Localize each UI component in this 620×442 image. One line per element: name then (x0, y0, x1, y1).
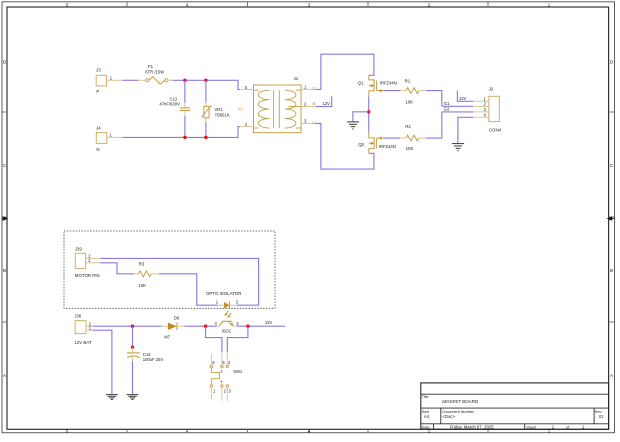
junction dot top C12 (183, 79, 186, 82)
svg-text:2: 2 (428, 2, 431, 7)
svg-text:12: 12 (312, 87, 316, 91)
power symbol 12V on pin 2 (313, 96, 332, 106)
junction dot right of opto (246, 325, 249, 328)
svg-text:J36: J36 (74, 314, 81, 319)
wire D6 to opto transistor (184, 325, 217, 327)
svg-text:5: 5 (66, 2, 69, 7)
svg-text:MOSFET BOARD: MOSFET BOARD (442, 399, 479, 404)
svg-text:ISO1: ISO1 (222, 329, 232, 334)
dashed enclosure box (64, 231, 275, 308)
svg-text:IRFZ44N: IRFZ44N (380, 81, 397, 86)
svg-text:01: 01 (599, 414, 604, 419)
switch SW1 (210, 352, 243, 401)
resistor R1 (400, 78, 426, 104)
svg-text:R2: R2 (405, 124, 411, 129)
connector J39 (75, 246, 100, 278)
frame column labels bottom (66, 428, 551, 433)
transformer J1 (240, 76, 316, 133)
svg-text:47nF/630V: 47nF/630V (159, 101, 180, 106)
frame column ticks bottom (127, 429, 488, 432)
svg-text:J2: J2 (489, 86, 494, 91)
svg-text:J4: J4 (96, 126, 101, 131)
svg-text:12V: 12V (323, 101, 331, 106)
frame row labels right (610, 60, 614, 379)
ground at J2 (452, 144, 464, 151)
svg-text:B: B (3, 268, 6, 273)
net G1 wire (442, 101, 474, 106)
junction dot above C13 (131, 346, 134, 349)
svg-text:10K: 10K (406, 146, 414, 151)
title block text (422, 395, 605, 430)
wire opto pin4 branch to SW1 pin5 (206, 326, 222, 352)
title block outline (421, 383, 609, 429)
svg-text:Friday, March 07, 2025: Friday, March 07, 2025 (450, 424, 494, 429)
frame center arrow right (607, 216, 615, 220)
svg-text:P: P (96, 89, 99, 94)
wire Q2 gate to R2 (383, 137, 400, 139)
junction dot C13 tap (131, 325, 134, 328)
svg-text:R1: R1 (405, 78, 411, 83)
wire opto pin3 branch to SW1 pin4 (227, 326, 248, 352)
wire pin3 riser to bottom rail (316, 124, 374, 170)
diode D6 (162, 315, 185, 339)
wire motor pin2 to opto pin2 (100, 258, 258, 305)
svg-text:4: 4 (186, 428, 189, 433)
connector J4 (96, 126, 122, 153)
svg-text:Sheet: Sheet (526, 425, 537, 429)
svg-text:12V: 12V (459, 96, 467, 101)
connector J36 (74, 314, 92, 345)
svg-text:VR1: VR1 (215, 107, 224, 112)
junction dot bottom C12 (183, 136, 186, 139)
svg-text:Q2: Q2 (358, 142, 364, 147)
frame row labels left (3, 60, 7, 379)
wire R3 to opto pin1 (159, 274, 218, 305)
svg-text:A4: A4 (424, 414, 430, 419)
svg-text:4: 4 (186, 2, 189, 7)
svg-text:MOTOR PIN: MOTOR PIN (75, 273, 100, 278)
svg-text:R3: R3 (139, 261, 145, 266)
svg-text:5: 5 (66, 428, 69, 433)
wire Q1 gate to R1 (383, 90, 400, 92)
svg-text:M7: M7 (164, 335, 170, 340)
svg-text:10K: 10K (138, 283, 146, 288)
wire to mid ground (353, 112, 369, 122)
frame row ticks left (2, 112, 7, 322)
svg-text:3: 3 (308, 2, 311, 7)
svg-text:12V BAT: 12V BAT (74, 340, 92, 345)
svg-text:100uF 25V: 100uF 25V (143, 357, 164, 362)
transistor Q2 (358, 132, 396, 154)
junction dot left of opto (204, 325, 207, 328)
svg-text:J1: J1 (294, 76, 299, 81)
svg-text:J3: J3 (96, 68, 101, 73)
wire C13 branch (132, 326, 134, 347)
net label 12V (265, 320, 273, 325)
transistor Q1 (358, 75, 397, 96)
wire C13 to ground (132, 361, 134, 394)
power 12V at J2 pin 1 (457, 91, 473, 102)
frame center arrow bottom (308, 430, 311, 432)
svg-text:G2: G2 (444, 107, 450, 112)
wire F1 to J1 top rail (173, 80, 241, 89)
junction dot bottom VR1 (204, 136, 207, 139)
svg-text:SW1: SW1 (233, 369, 243, 374)
opto isolator LED (206, 291, 241, 309)
capacitor C12 (159, 80, 190, 137)
connector J3 (96, 68, 123, 94)
wire R1 to G1 (426, 91, 442, 107)
svg-text:N: N (96, 147, 99, 152)
frame center arrow left (3, 216, 9, 220)
wire motor pin1 to R3 (100, 263, 134, 274)
ground below J36 (106, 395, 118, 400)
ground below C13 (127, 395, 139, 400)
svg-text:J39: J39 (75, 246, 82, 251)
wire J36 pin2 to D6 (93, 325, 162, 327)
svg-text:B: B (610, 268, 613, 273)
svg-text:G1: G1 (444, 101, 450, 106)
connector J2 (473, 86, 501, 132)
svg-text:OPTO ISOLATOR: OPTO ISOLATOR (206, 291, 241, 296)
svg-text:AC: AC (238, 107, 244, 112)
opto transistor ISO1 (215, 321, 240, 334)
wire pin1 riser to top rail (316, 54, 374, 89)
varistor VR1 (202, 80, 230, 137)
junction dot top VR1 (204, 79, 207, 82)
svg-text:CON4: CON4 (489, 128, 502, 133)
frame column labels top (66, 2, 551, 7)
svg-text:12V: 12V (265, 320, 273, 325)
wire Q1 source to Q2 drain (368, 96, 370, 131)
wire R2 to G2 (426, 112, 442, 138)
svg-text:Q1: Q1 (358, 81, 364, 86)
ground mid (347, 122, 359, 129)
svg-text:1: 1 (548, 2, 551, 7)
svg-text:<Doc>: <Doc> (442, 414, 455, 419)
fuse F1 (138, 64, 173, 84)
svg-text:Date:: Date: (422, 425, 431, 429)
opto emission arrows (224, 311, 231, 318)
wire opto to 12V net (237, 325, 285, 327)
resistor R3 (134, 261, 159, 288)
net label 12 on pin 3 (312, 121, 316, 125)
wire J3 to F1 (123, 79, 139, 81)
junction dot source node (367, 110, 370, 113)
svg-text:Title: Title (422, 395, 429, 399)
net G2 wire (442, 107, 474, 112)
svg-text:7D661K: 7D661K (215, 113, 230, 118)
svg-text:10K: 10K (405, 100, 413, 105)
resistor R2 (400, 124, 426, 151)
svg-text:D6: D6 (174, 315, 180, 320)
svg-text:12: 12 (312, 121, 316, 125)
frame column ticks top (127, 2, 488, 7)
frame row ticks right (609, 112, 615, 322)
svg-text:6TR /15W: 6TR /15W (145, 69, 164, 74)
net label 12 on pin 1 (312, 87, 316, 91)
capacitor C13 (127, 347, 163, 362)
svg-text:IRFZ44N: IRFZ44N (379, 144, 396, 149)
wire J36 pin1 to ground (93, 330, 112, 394)
wire J2 pin 4 to ground (458, 117, 473, 143)
net label AC (238, 107, 244, 112)
wire J4 to J1 bottom (123, 127, 241, 138)
